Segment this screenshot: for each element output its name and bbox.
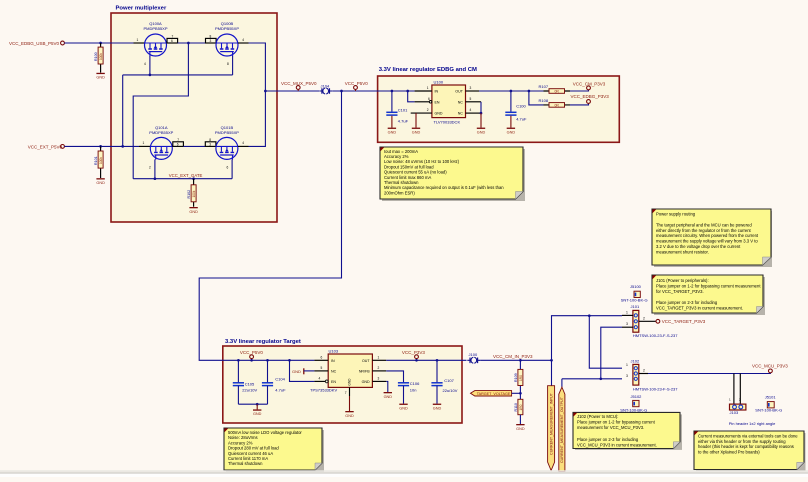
wire J101 pin3 to measurement return bbox=[601, 327, 622, 379]
svg-text:CURRENT_MEASUREMENT_INPUT: CURRENT_MEASUREMENT_INPUT bbox=[550, 392, 554, 455]
node junction EN branch bbox=[406, 90, 409, 93]
wire feed to target regulator bbox=[199, 91, 341, 360]
svg-text:VCC_EXT_P5V0: VCC_EXT_P5V0 bbox=[28, 144, 63, 149]
svg-text:1: 1 bbox=[626, 363, 628, 367]
svg-text:R109: R109 bbox=[514, 373, 518, 382]
node junction C101 bbox=[391, 90, 394, 93]
node junction ground tie bbox=[256, 403, 259, 406]
svg-text:C106: C106 bbox=[410, 381, 420, 386]
node junction R102 bbox=[192, 177, 195, 180]
node junction R101 bbox=[99, 145, 102, 148]
power port VCC_MCU_P3V3 bbox=[769, 369, 773, 373]
svg-text:6: 6 bbox=[177, 142, 179, 146]
pin U103 IN bbox=[314, 359, 328, 361]
wire R108 to port bbox=[570, 103, 589, 105]
svg-text:TLV70033DCK: TLV70033DCK bbox=[434, 119, 461, 124]
svg-text:5: 5 bbox=[321, 366, 323, 370]
svg-text:J5101: J5101 bbox=[765, 395, 777, 400]
svg-text:U103: U103 bbox=[329, 349, 339, 354]
svg-text:Place jumper on 2-3 for includ: Place jumper on 2-3 for including bbox=[656, 300, 718, 305]
svg-text:Place jumper on 2-3 for includ: Place jumper on 2-3 for including bbox=[577, 437, 639, 442]
node junction VCC_P5V0 target bbox=[250, 359, 253, 362]
op-amp U103 body bbox=[310, 349, 372, 393]
pin pad 7/6 (Q100A drain) bbox=[167, 34, 178, 43]
svg-text:8: 8 bbox=[227, 62, 229, 66]
svg-text:EN: EN bbox=[331, 380, 336, 384]
svg-text:SNT-100-BK-G: SNT-100-BK-G bbox=[620, 408, 647, 413]
svg-text:R101: R101 bbox=[94, 156, 98, 165]
resistor R101 bbox=[94, 146, 103, 178]
wire Q101A gate lead bbox=[154, 159, 156, 178]
svg-text:22u/10V: 22u/10V bbox=[443, 388, 458, 393]
svg-text:VCC_P5V0: VCC_P5V0 bbox=[345, 81, 369, 86]
wire U100 OUT rail bbox=[479, 90, 544, 92]
svg-text:1: 1 bbox=[427, 86, 429, 90]
svg-text:Pin header 1x2 right angle: Pin header 1x2 right angle bbox=[729, 421, 776, 426]
svg-text:4: 4 bbox=[319, 376, 321, 380]
wire gate rail drop to VCC_EXT row bbox=[122, 75, 124, 146]
wire Q101B gate lead bbox=[231, 159, 233, 178]
svg-text:GND: GND bbox=[362, 380, 370, 384]
svg-text:IN: IN bbox=[331, 359, 335, 363]
wire J104 to EDBG regulator bbox=[332, 90, 414, 92]
capacitor C107 bbox=[431, 360, 457, 403]
wire U103 OUT rail bbox=[386, 359, 466, 361]
connector J103 bbox=[730, 404, 746, 415]
wire target rail bbox=[223, 359, 315, 361]
svg-text:C101: C101 bbox=[398, 107, 408, 112]
svg-text:GND: GND bbox=[348, 378, 352, 386]
net label GND at NC pin bbox=[292, 368, 314, 374]
wire J100 to current measurement node bbox=[480, 359, 551, 361]
svg-text:J101 (Power to peripherals):: J101 (Power to peripherals): bbox=[656, 278, 709, 283]
ground under C106 bbox=[399, 404, 408, 411]
wire J102 pin2 to VCC_MCU bbox=[648, 372, 770, 375]
svg-text:VCC_TARGET_P3V3: VCC_TARGET_P3V3 bbox=[662, 319, 706, 324]
pin J103 pin1 bbox=[733, 374, 735, 405]
transistor Q101A bbox=[149, 125, 173, 159]
svg-text:Power multiplexer: Power multiplexer bbox=[116, 6, 167, 12]
node junction current measurement bbox=[550, 359, 553, 362]
node junction C104 bbox=[266, 359, 269, 362]
svg-text:4.7uF: 4.7uF bbox=[398, 118, 409, 123]
svg-text:3: 3 bbox=[209, 142, 211, 146]
svg-text:4: 4 bbox=[144, 62, 146, 66]
svg-text:6: 6 bbox=[227, 166, 229, 170]
note J101 jumper usage bbox=[652, 275, 765, 315]
power port VCC_MUX_P5V0 bbox=[296, 86, 300, 91]
pin U103 NR/FB bbox=[372, 370, 386, 372]
wire VCC_EDBG_USB_P5V0 to Q100A bbox=[64, 42, 133, 44]
op-amp U100 body bbox=[432, 80, 466, 125]
svg-text:measurement the supply voltage: measurement the supply voltage will vary… bbox=[656, 239, 758, 244]
wire VCC_EXT_P5V0 to Q101A bbox=[64, 145, 139, 147]
svg-text:C104: C104 bbox=[275, 377, 285, 382]
note target regulator specs bbox=[224, 428, 324, 472]
sheet block: power multiplexer box bbox=[111, 13, 277, 222]
svg-text:Place jumper on 1-2 for bypass: Place jumper on 1-2 for bypassing curren… bbox=[577, 420, 656, 425]
node junction output bbox=[264, 90, 267, 93]
pin U100 NC5 bbox=[466, 101, 482, 103]
pin U100 IN bbox=[415, 90, 432, 92]
pin U100 EN bbox=[415, 101, 430, 103]
svg-text:0R: 0R bbox=[555, 90, 560, 94]
resistor R102 bbox=[187, 179, 196, 207]
wire upper gates rail bbox=[123, 74, 233, 76]
svg-text:J100: J100 bbox=[469, 352, 478, 357]
svg-text:R100: R100 bbox=[94, 52, 98, 61]
pin J102 pin2 bbox=[639, 373, 648, 375]
svg-text:R107: R107 bbox=[539, 84, 549, 89]
svg-text:VCC_MCU_P3V3 in current measur: VCC_MCU_P3V3 in current measurement. bbox=[577, 443, 657, 448]
wire Q101A to Q101B bbox=[183, 145, 205, 147]
capacitor C100 bbox=[505, 91, 527, 128]
node junction gate rail bbox=[149, 74, 152, 77]
svg-text:U100: U100 bbox=[434, 80, 444, 85]
transistor Q100B bbox=[215, 21, 239, 56]
svg-text:VCC_P5V0: VCC_P5V0 bbox=[240, 350, 264, 355]
pin Q100B pin4 bbox=[238, 42, 249, 44]
svg-text:Current measurements via exter: Current measurements via external tools … bbox=[698, 433, 798, 438]
svg-text:1: 1 bbox=[626, 310, 628, 314]
ground under NC pins bbox=[477, 113, 486, 134]
svg-text:EN: EN bbox=[435, 100, 440, 104]
svg-text:10n: 10n bbox=[410, 387, 417, 392]
svg-text:VCC_MCU_P3V3: VCC_MCU_P3V3 bbox=[752, 364, 788, 369]
svg-text:2: 2 bbox=[643, 369, 645, 373]
svg-text:6: 6 bbox=[428, 97, 430, 101]
jumper J5101 bbox=[755, 395, 782, 413]
svg-text:2: 2 bbox=[643, 316, 645, 320]
pin pad 8/3 (Q100B drain) bbox=[206, 34, 217, 43]
svg-text:5: 5 bbox=[470, 97, 472, 101]
svg-text:either via this header or from: either via this header or from the suppl… bbox=[698, 439, 786, 444]
jumper J104 bbox=[319, 84, 332, 94]
svg-text:measurement shunt resistor.: measurement shunt resistor. bbox=[656, 249, 709, 254]
ground under U103 pad bbox=[345, 396, 354, 418]
svg-text:NC: NC bbox=[458, 100, 464, 104]
svg-text:SNT-100-BK-G: SNT-100-BK-G bbox=[621, 298, 648, 303]
svg-text:GND: GND bbox=[435, 112, 443, 116]
pin Q101B pin4 bbox=[238, 145, 249, 147]
ground at U103 GND pin bbox=[384, 381, 393, 398]
svg-text:Thermal shutdown: Thermal shutdown bbox=[228, 461, 263, 466]
resistor R100 bbox=[94, 43, 103, 73]
wire U103 NR/FB to C106 bbox=[386, 371, 403, 383]
svg-text:6: 6 bbox=[171, 39, 173, 43]
sheet block: 3.3V linear regulator Target box bbox=[223, 346, 462, 423]
svg-text:VCC_EDBG_P3V3: VCC_EDBG_P3V3 bbox=[571, 94, 610, 99]
svg-text:4: 4 bbox=[242, 141, 244, 145]
svg-text:4: 4 bbox=[470, 108, 472, 112]
node junction R109 bbox=[519, 359, 522, 362]
pin U103 GND bbox=[372, 380, 386, 382]
capacitor C105 bbox=[233, 360, 258, 404]
wire output to J104 bbox=[265, 90, 319, 92]
pin J101 pin1 bbox=[622, 314, 633, 316]
wire R107 to port bbox=[570, 90, 589, 91]
svg-text:J102: J102 bbox=[631, 358, 640, 363]
resistor R107 bbox=[539, 84, 571, 93]
svg-text:PMDPB55XP: PMDPB55XP bbox=[215, 130, 239, 135]
svg-text:100k: 100k bbox=[192, 190, 196, 197]
power port VCC_CM_P3V3 bbox=[587, 86, 591, 90]
power port VCC_TARGET_P3V3 bbox=[656, 319, 660, 323]
node junction measurement return bbox=[599, 377, 602, 380]
svg-text:header (this header is kept fo: header (this header is kept for compatib… bbox=[698, 444, 794, 449]
svg-text:OUT: OUT bbox=[455, 90, 463, 94]
svg-text:1R0: 1R0 bbox=[519, 404, 523, 410]
resistor R108 bbox=[539, 98, 571, 107]
ground under C105/C104 bbox=[253, 404, 262, 416]
svg-text:J103: J103 bbox=[730, 410, 739, 415]
svg-text:3: 3 bbox=[626, 374, 628, 378]
svg-text:to the other Xplained Pro boar: to the other Xplained Pro boards) bbox=[698, 450, 760, 455]
svg-text:GND: GND bbox=[292, 369, 301, 374]
power port VCC_EDBG_P3V3 bbox=[587, 100, 591, 104]
jumper J5100 bbox=[621, 284, 648, 302]
svg-text:3.3V linear regulator Target: 3.3V linear regulator Target bbox=[225, 339, 301, 345]
ground under C107 bbox=[433, 404, 442, 411]
wire Q100B to output column bbox=[249, 43, 266, 146]
svg-text:2: 2 bbox=[149, 166, 151, 170]
ground under C100 bbox=[507, 128, 516, 135]
svg-text:J104: J104 bbox=[321, 84, 330, 89]
svg-text:TARGET_VOLTAGE: TARGET_VOLTAGE bbox=[477, 392, 511, 396]
svg-text:TPS73533DKV: TPS73533DKV bbox=[310, 387, 337, 392]
node junction R108 branch bbox=[528, 90, 531, 93]
svg-text:VCC_P3V3: VCC_P3V3 bbox=[402, 350, 426, 355]
port CURRENT MEASUREMENT INPUT bbox=[548, 386, 555, 471]
svg-text:Place jumper on 1-2 for bypass: Place jumper on 1-2 for bypassing curren… bbox=[656, 283, 761, 288]
svg-text:C105: C105 bbox=[245, 382, 255, 387]
svg-text:VCC_MUX_P5V0: VCC_MUX_P5V0 bbox=[281, 81, 317, 86]
node junction VCC_P3V3 bbox=[415, 359, 418, 362]
svg-text:4: 4 bbox=[242, 38, 244, 42]
pin U103 OUT bbox=[372, 359, 386, 361]
wire top junction down and left bbox=[133, 43, 188, 179]
svg-text:0R: 0R bbox=[555, 104, 560, 108]
resistor R109 bbox=[514, 360, 523, 399]
wire current measurement output port stub bbox=[561, 379, 563, 387]
svg-text:VCC_EDBG_USB_P5V0: VCC_EDBG_USB_P5V0 bbox=[9, 41, 60, 46]
pin Q100A pin1 bbox=[134, 42, 145, 44]
pin U103 pad bbox=[349, 387, 351, 396]
svg-text:R108: R108 bbox=[539, 98, 549, 103]
svg-text:SNT-100-BK-G: SNT-100-BK-G bbox=[755, 407, 782, 412]
svg-text:100k: 100k bbox=[99, 157, 103, 164]
svg-text:7: 7 bbox=[177, 138, 179, 142]
node junction C100 bbox=[510, 90, 513, 93]
capacitor C106 bbox=[398, 381, 420, 403]
svg-text:3.3V linear regulator EDBG and: 3.3V linear regulator EDBG and CM bbox=[379, 67, 477, 73]
node junction Q101A gate bbox=[154, 177, 157, 180]
svg-text:1: 1 bbox=[378, 355, 380, 359]
svg-text:4.7uF: 4.7uF bbox=[275, 388, 286, 393]
svg-text:2: 2 bbox=[427, 108, 429, 112]
svg-text:Power supply routing: Power supply routing bbox=[656, 212, 696, 217]
sheet block: 3.3V linear regulator EDBG and CM box bbox=[378, 76, 620, 142]
window bottom edge strip bbox=[0, 470, 808, 473]
connector J101 bbox=[631, 304, 679, 338]
wire NC tie bbox=[480, 102, 482, 113]
note EDBG regulator specs bbox=[380, 147, 525, 201]
port CURRENT MEASUREMENT OUTPUT bbox=[559, 387, 565, 471]
svg-text:3: 3 bbox=[378, 376, 380, 380]
svg-text:VCC_EXT_GATE: VCC_EXT_GATE bbox=[169, 173, 203, 178]
svg-text:100k: 100k bbox=[99, 53, 103, 60]
wire CM node up to J101 bbox=[552, 316, 623, 361]
svg-text:VCC_TARGET_P3V3 in current mea: VCC_TARGET_P3V3 in current measurement. bbox=[656, 305, 743, 310]
svg-text:VCC_CM_IN_P3V3: VCC_CM_IN_P3V3 bbox=[493, 354, 533, 359]
wire measurement return rail bbox=[562, 378, 622, 380]
ground under C101 bbox=[388, 128, 397, 135]
wire EN branch bbox=[408, 91, 415, 102]
ground under U100 GND pin bbox=[412, 113, 421, 134]
svg-text:OUT: OUT bbox=[362, 359, 370, 363]
wire C105 C104 ground tie bbox=[238, 403, 267, 405]
svg-text:2: 2 bbox=[378, 366, 380, 370]
pin U100 NC4 bbox=[466, 112, 482, 114]
pin pad 7/6 (Q101A drain) bbox=[173, 138, 184, 147]
node junction VCC_P5V0 bbox=[340, 90, 343, 93]
wire EN branch target bbox=[290, 360, 315, 381]
ground under R101 bbox=[96, 178, 105, 185]
node junction C105 bbox=[237, 359, 240, 362]
resistor R110 bbox=[514, 399, 523, 424]
svg-text:3: 3 bbox=[626, 322, 628, 326]
ground under R110 bbox=[516, 424, 525, 431]
node junction J102 branch bbox=[588, 314, 591, 317]
svg-text:PMDPB55XP: PMDPB55XP bbox=[149, 130, 173, 135]
svg-text:J101: J101 bbox=[631, 304, 640, 309]
node junction C107 bbox=[436, 359, 439, 362]
pin J101 pin2 bbox=[639, 320, 656, 322]
node junction at VCC_EXT row bbox=[121, 145, 124, 148]
svg-text:either directly from the regul: either directly from the regulator or fr… bbox=[656, 228, 752, 233]
ground under R102 bbox=[189, 207, 198, 214]
svg-text:8: 8 bbox=[210, 34, 212, 38]
ground under R100 bbox=[96, 73, 105, 80]
svg-text:NC: NC bbox=[331, 370, 337, 374]
svg-text:measurement for VCC_MCU_P3V3.: measurement for VCC_MCU_P3V3. bbox=[577, 425, 644, 430]
svg-text:1: 1 bbox=[137, 38, 139, 42]
wire Q100B gate lead bbox=[232, 56, 234, 75]
capacitor C101 bbox=[386, 91, 408, 128]
svg-text:PMDPB55XP: PMDPB55XP bbox=[143, 26, 167, 31]
pin U103 EN with bubble bbox=[314, 380, 328, 383]
wire current measurement input port stub bbox=[551, 360, 553, 385]
svg-text:R110: R110 bbox=[514, 403, 518, 411]
wire EDBG rail bbox=[378, 90, 415, 92]
svg-text:NC: NC bbox=[458, 112, 464, 116]
pin U100 OUT bbox=[466, 90, 480, 92]
node junction top mid bbox=[187, 42, 190, 45]
svg-text:3: 3 bbox=[210, 39, 212, 43]
svg-text:1: 1 bbox=[143, 141, 145, 145]
svg-text:3.2 V due to the voltage drop: 3.2 V due to the voltage drop over the c… bbox=[656, 244, 741, 249]
svg-text:200mOhm ESR): 200mOhm ESR) bbox=[384, 190, 415, 195]
power port VCC_EXT_P5V0 bbox=[61, 145, 65, 149]
svg-text:3: 3 bbox=[470, 86, 472, 90]
svg-text:4.7uF: 4.7uF bbox=[516, 116, 527, 121]
node junction R100 bbox=[99, 42, 102, 45]
note current measurement header bbox=[694, 431, 806, 471]
power port VCC_EDBG_USB_P5V0 bbox=[61, 41, 65, 45]
pin Q101A pin1 bbox=[139, 145, 150, 147]
svg-text:measurement circuitry. When po: measurement circuitry. When powered from… bbox=[656, 233, 759, 238]
pin U103 NC bbox=[314, 370, 328, 372]
pin U100 GND bbox=[411, 112, 432, 114]
wire R108 branch bbox=[529, 91, 544, 105]
svg-text:J102 (Power to MCU):: J102 (Power to MCU): bbox=[577, 414, 618, 419]
transistor Q101B bbox=[215, 125, 239, 159]
transistor Q100A bbox=[143, 21, 167, 56]
svg-text:The target peripheral and the: The target peripheral and the MCU can be… bbox=[656, 222, 752, 227]
svg-text:IN: IN bbox=[435, 90, 439, 94]
svg-text:HMTSW-100-23-F-S-237: HMTSW-100-23-F-S-237 bbox=[633, 386, 678, 391]
node junction target voltage tap bbox=[519, 392, 522, 395]
svg-text:J5102: J5102 bbox=[631, 394, 643, 399]
capacitor C104 bbox=[262, 360, 286, 404]
svg-text:7: 7 bbox=[345, 391, 347, 395]
svg-text:C100: C100 bbox=[516, 103, 526, 108]
svg-text:1R0: 1R0 bbox=[519, 375, 523, 381]
note power supply routing bbox=[652, 209, 772, 267]
svg-text:R102: R102 bbox=[187, 190, 191, 199]
jumper J5102 bbox=[620, 394, 647, 412]
wire Q100A to Q100B bbox=[178, 42, 211, 44]
svg-text:C107: C107 bbox=[444, 378, 454, 383]
note J102 jumper usage bbox=[573, 412, 682, 450]
wire Q100A gate lead bbox=[149, 56, 151, 75]
svg-text:NR/FB: NR/FB bbox=[359, 370, 370, 374]
svg-text:HMTSW-100-23-F-S-237: HMTSW-100-23-F-S-237 bbox=[633, 333, 678, 338]
port flag TARGET_VOLTAGE bbox=[471, 391, 521, 397]
pin J103 pin2 bbox=[739, 374, 741, 405]
connector J102 bbox=[631, 358, 679, 391]
svg-text:8: 8 bbox=[209, 138, 211, 142]
pin pad 8/3 (Q101B drain) bbox=[205, 138, 216, 147]
svg-text:PMDPB55XP: PMDPB55XP bbox=[215, 26, 239, 31]
power port VCC_P3V3 bbox=[415, 355, 419, 360]
svg-text:J5100: J5100 bbox=[630, 284, 642, 289]
svg-text:6: 6 bbox=[321, 355, 323, 359]
jumper J100 bbox=[467, 352, 480, 364]
wire VCC_EXT_GATE bbox=[133, 178, 232, 180]
svg-text:CURRENT_MEASUREMENT_OUTPUT: CURRENT_MEASUREMENT_OUTPUT bbox=[560, 396, 564, 463]
svg-text:for VCC_TARGET_P3V3.: for VCC_TARGET_P3V3. bbox=[656, 289, 704, 294]
power port VCC_P5V0 bbox=[354, 86, 358, 91]
power port VCC_P5V0 (target) bbox=[250, 355, 254, 360]
wire branch down to J102 pin1 bbox=[589, 316, 622, 369]
node junction EN branch target bbox=[288, 359, 291, 362]
pin J101 pin3 bbox=[622, 326, 633, 328]
svg-text:7: 7 bbox=[172, 34, 174, 38]
node junction NC tie bbox=[480, 112, 483, 115]
svg-text:22u/10V: 22u/10V bbox=[242, 388, 257, 393]
